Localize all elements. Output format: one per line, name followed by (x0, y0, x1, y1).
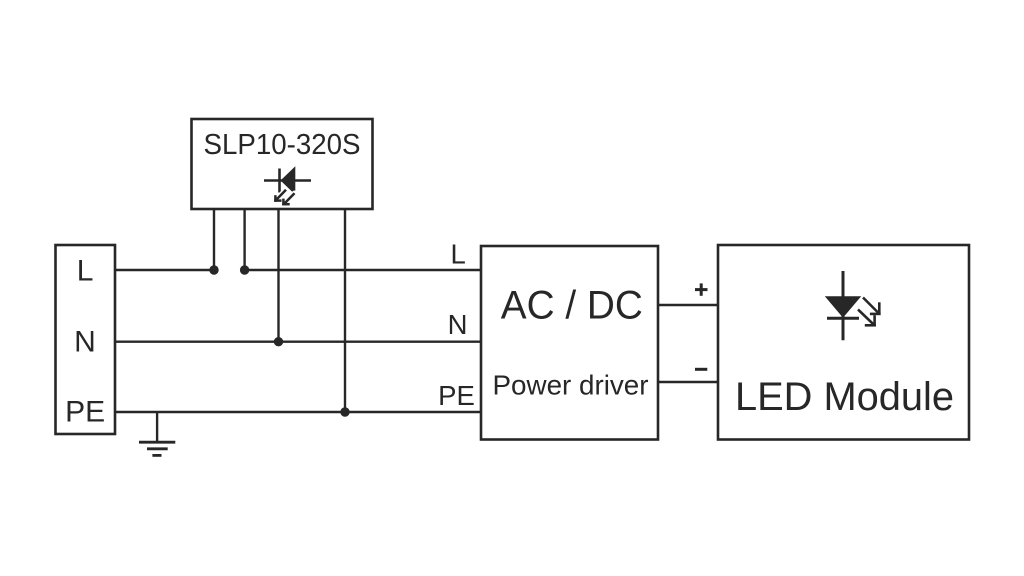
svg-text:SLP10-320S: SLP10-320S (204, 129, 361, 161)
svg-text:AC / DC: AC / DC (501, 284, 643, 328)
svg-text:N: N (448, 309, 468, 340)
svg-text:L: L (77, 254, 94, 287)
svg-text:PE: PE (438, 380, 475, 411)
svg-text:Power driver: Power driver (493, 369, 649, 400)
svg-text:N: N (74, 326, 96, 359)
svg-text:PE: PE (65, 395, 105, 428)
svg-text:LED Module: LED Module (735, 375, 954, 419)
svg-text:L: L (450, 238, 465, 269)
